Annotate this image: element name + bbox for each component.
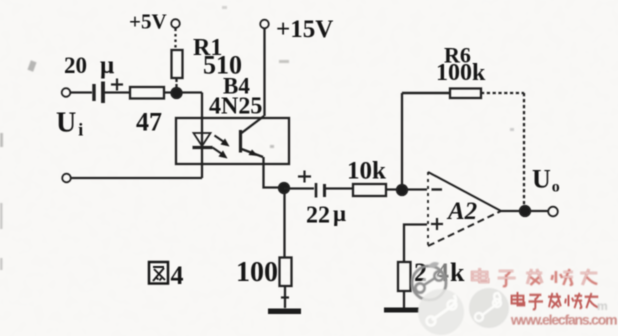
LED of optocoupler	[194, 133, 211, 146]
output terminal Uo	[548, 207, 558, 217]
op-amp A2 left edge	[427, 172, 429, 246]
op-amp plus input mark	[431, 218, 443, 230]
svg-text:m: m	[597, 299, 608, 313]
wire: node B to capacitor C2	[284, 187, 314, 189]
svg-text:+15V: +15V	[276, 16, 333, 43]
svg-text:+5V: +5V	[129, 10, 167, 34]
resistor R1 510	[172, 50, 183, 78]
svg-text:μ: μ	[100, 52, 114, 79]
wire: resistor 47 to node A and onward to LED anode	[164, 93, 202, 148]
arrowhead light arrow 2	[219, 151, 228, 159]
light arrow 1	[215, 136, 225, 143]
svg-text:20: 20	[64, 53, 87, 78]
svg-text:4: 4	[171, 261, 184, 290]
watermark big faint circle	[418, 289, 464, 335]
wire: 10k to node C and op-amp inverting input	[386, 188, 427, 190]
wire: +15V rail down to collector	[263, 29, 265, 117]
resistor 47	[130, 87, 164, 99]
capacitor C1 plates 20u	[92, 84, 95, 101]
watermark red text row 2: dian zi fa shao you	[512, 292, 599, 309]
ground bar below resistor 100	[268, 309, 301, 315]
svg-text:22: 22	[306, 203, 330, 229]
svg-text:www.elecfans.com: www.elecfans.com	[509, 311, 616, 327]
arrowhead emitter	[249, 150, 259, 157]
LED cathode wire down	[201, 147, 203, 178]
input terminal Ui lower	[62, 174, 71, 183]
wire: emitter down to node B	[264, 157, 285, 188]
wire: terminal to capacitor C1	[71, 91, 93, 93]
resistor 2.4k	[398, 262, 411, 291]
watermark red text row 1: dian zi fa shao you	[472, 268, 597, 286]
resistor 10k	[353, 184, 386, 196]
wire: C1 to resistor 47	[105, 91, 131, 93]
svg-text:k: k	[450, 258, 465, 287]
+15V supply terminal	[260, 20, 269, 29]
node C junction dot	[397, 185, 407, 195]
feedback wire: node C up	[401, 93, 403, 186]
phototransistor base bar	[239, 130, 242, 153]
svg-text:10k: 10k	[347, 158, 386, 185]
wire: resistor 100 to ground	[284, 286, 286, 308]
watermark url www.elecfans.com	[509, 311, 617, 328]
capacitor C2 plates 22u	[315, 183, 318, 198]
+5V supply terminal	[171, 19, 180, 28]
feedback wire: dashed down to output node	[523, 93, 525, 207]
scan tick on ground wire	[281, 296, 289, 298]
watermark logo blob (filled)	[469, 288, 509, 328]
wire: lower terminal to LED cathode	[71, 177, 202, 179]
figure label 图4	[149, 262, 168, 284]
op-amp output wire	[501, 210, 549, 212]
wire: +5V terminal to R1 (dotted)	[174, 29, 176, 51]
node B junction dot	[279, 183, 289, 193]
op-amp A2 top edge	[428, 172, 501, 211]
svg-text:47: 47	[136, 108, 162, 137]
node D junction dot (output)	[520, 206, 530, 216]
wire: R1 to node A	[175, 78, 177, 90]
wire: C2 to resistor 10k	[326, 187, 353, 189]
input terminal Ui upper	[62, 88, 71, 97]
svg-text:μ: μ	[333, 201, 346, 226]
wire: node B down to resistor 100	[283, 192, 285, 258]
resistor 100	[280, 258, 292, 287]
feedback wire: top horizontal to R6	[402, 92, 450, 95]
wire: non-inverting input to resistor 2.4k	[404, 225, 427, 263]
op-amp A2 bottom edge	[428, 211, 501, 246]
C2 polarity plus	[298, 171, 311, 183]
watermark logo (line art, over 2.4k label)	[412, 262, 446, 300]
phototransistor collector	[242, 116, 265, 133]
optocoupler B4 4N25 body	[176, 118, 289, 164]
light arrow 2	[213, 148, 223, 155]
phototransistor emitter	[242, 149, 264, 157]
ground bar below resistor 2.4k	[384, 308, 419, 313]
feedback wire: dashed right segment	[481, 92, 524, 94]
svg-text:100k: 100k	[436, 60, 486, 86]
arrowhead light arrow 1	[221, 139, 230, 147]
svg-text:A2: A2	[446, 198, 477, 225]
node A junction dot	[172, 88, 182, 98]
resistor R6 100k	[450, 89, 481, 99]
wire: 2.4k to ground	[403, 291, 405, 308]
svg-text:4N25: 4N25	[209, 94, 262, 120]
op-amp minus input mark	[432, 188, 443, 190]
svg-text:100: 100	[236, 257, 278, 288]
C1 polarity plus	[111, 79, 123, 91]
